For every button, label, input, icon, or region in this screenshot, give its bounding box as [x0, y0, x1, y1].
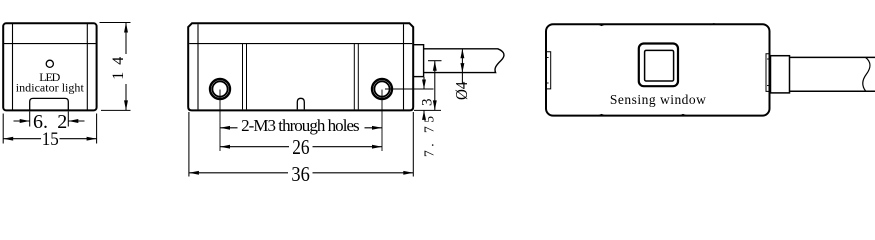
bottom edge jog right: [680, 114, 687, 115]
sensing window inner: [645, 50, 674, 81]
dimension 6.2: [14, 112, 85, 127]
svg-text:7. 75: 7. 75: [421, 116, 436, 157]
dimension 7.75: [414, 61, 442, 111]
side view left inner edge: [197, 24, 199, 109]
cable break mark: [863, 57, 870, 91]
dimension diameter 4: [461, 49, 463, 84]
svg-text:Ø4: Ø4: [452, 81, 471, 100]
front view left inner edge: [12, 24, 14, 110]
svg-text:Sensing window: Sensing window: [610, 92, 706, 107]
front view body: [3, 23, 96, 110]
svg-text:indicator light: indicator light: [16, 80, 85, 94]
hole left inner: [212, 81, 227, 96]
right screw channel lines: [353, 44, 355, 110]
cable connector side view: [413, 45, 423, 77]
svg-text:3: 3: [420, 99, 436, 107]
hole right inner: [374, 81, 389, 96]
svg-text:2-M3 through holes: 2-M3 through holes: [241, 116, 360, 135]
dimension 2-M3 through holes: [220, 127, 382, 129]
side view right inner edge: [403, 24, 405, 109]
hole right centerline horizontal: [385, 88, 434, 90]
svg-text:15: 15: [42, 129, 59, 150]
top view cable: [790, 56, 875, 58]
svg-text:14: 14: [110, 57, 127, 80]
svg-text:26: 26: [292, 135, 309, 159]
front bottom notch: [30, 98, 69, 109]
side view body: [188, 23, 504, 110]
side bottom notch: [297, 98, 304, 109]
top view right tab: [766, 54, 769, 92]
top edge jog left: [599, 24, 606, 25]
sensing window outer: [639, 44, 678, 87]
side view cap line: [189, 43, 412, 45]
front view cap line: [4, 43, 96, 45]
top view body: [546, 24, 875, 116]
dimension 26: [220, 146, 382, 148]
svg-text:2: 2: [57, 111, 67, 133]
dimension 15: [3, 114, 96, 144]
left screw channel lines: [242, 44, 244, 110]
hole right centerline vertical: [381, 90, 383, 152]
svg-text:36: 36: [291, 162, 309, 186]
hole right outer: [372, 79, 392, 99]
hole left centerline: [219, 90, 221, 152]
dimension 14: [100, 23, 131, 111]
front view right inner edge: [86, 24, 88, 110]
cable side view: [424, 49, 504, 73]
dimension 3: [423, 77, 425, 120]
top view cable connector: [771, 56, 790, 93]
dimension 36: [189, 112, 413, 177]
hole left outer: [210, 79, 230, 99]
LED circle: [46, 60, 53, 67]
top view left tab: [547, 52, 551, 89]
bottom edge jog left: [599, 114, 606, 115]
top edge jog right: [711, 24, 718, 25]
